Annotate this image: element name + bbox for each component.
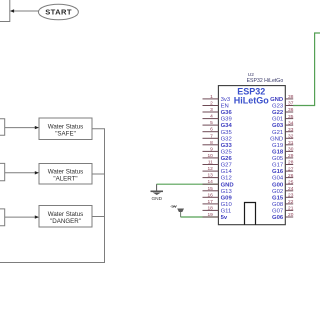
svg-text:G39: G39 — [221, 117, 232, 123]
svg-text:"SAFE": "SAFE" — [55, 131, 76, 138]
svg-text:G11: G11 — [221, 209, 232, 215]
svg-text:G00: G00 — [272, 182, 284, 188]
svg-text:36: 36 — [288, 107, 294, 113]
svg-text:ESP32 HiLetGo: ESP32 HiLetGo — [247, 78, 284, 84]
svg-text:23: 23 — [288, 193, 294, 199]
svg-text:35: 35 — [288, 114, 294, 120]
svg-text:10: 10 — [207, 153, 213, 159]
svg-text:12: 12 — [207, 166, 213, 172]
svg-text:26: 26 — [288, 173, 294, 179]
svg-text:G23: G23 — [272, 104, 284, 110]
svg-text:G32: G32 — [221, 136, 232, 142]
svg-text:G10: G10 — [221, 202, 233, 208]
svg-text:"ALERT": "ALERT" — [53, 176, 77, 183]
svg-text:14: 14 — [207, 179, 213, 185]
svg-text:30: 30 — [288, 147, 294, 153]
svg-text:G02: G02 — [272, 189, 283, 195]
svg-text:38: 38 — [288, 94, 294, 100]
svg-text:G25: G25 — [221, 150, 233, 156]
svg-text:20: 20 — [288, 212, 294, 218]
svg-text:G05: G05 — [272, 156, 284, 162]
svg-text:GND: GND — [270, 97, 283, 103]
svg-text:GND: GND — [151, 196, 162, 202]
svg-text:Water Status: Water Status — [48, 123, 84, 130]
svg-text:15: 15 — [207, 186, 213, 192]
svg-text:24: 24 — [288, 186, 294, 192]
svg-text:G09: G09 — [221, 195, 233, 201]
svg-text:G35: G35 — [221, 130, 233, 136]
svg-text:28: 28 — [288, 160, 294, 166]
svg-text:11: 11 — [208, 160, 213, 166]
svg-text:G03: G03 — [272, 123, 284, 129]
svg-text:G27: G27 — [221, 163, 232, 169]
svg-text:G18: G18 — [272, 150, 284, 156]
svg-text:9: 9 — [210, 146, 213, 152]
svg-text:G14: G14 — [221, 169, 233, 175]
svg-text:33: 33 — [288, 127, 294, 133]
svg-text:GND: GND — [270, 136, 283, 142]
svg-text:4: 4 — [210, 114, 213, 120]
svg-text:EN: EN — [221, 104, 229, 110]
svg-text:34: 34 — [288, 120, 294, 126]
svg-text:G17: G17 — [272, 163, 283, 169]
svg-text:HiLetGo: HiLetGo — [234, 95, 270, 105]
svg-text:G04: G04 — [272, 176, 284, 182]
svg-text:6: 6 — [210, 127, 213, 133]
svg-text:25: 25 — [288, 179, 294, 185]
svg-text:G06: G06 — [272, 215, 284, 221]
svg-text:3v3: 3v3 — [221, 97, 231, 103]
svg-text:32: 32 — [288, 134, 294, 140]
svg-text:G13: G13 — [221, 189, 233, 195]
svg-text:G26: G26 — [221, 156, 233, 162]
svg-text:Water Status: Water Status — [48, 168, 84, 175]
svg-text:29: 29 — [288, 153, 294, 159]
svg-text:13: 13 — [207, 173, 213, 179]
svg-text:GND: GND — [221, 182, 234, 188]
svg-text:8: 8 — [210, 140, 213, 146]
svg-text:G21: G21 — [272, 130, 283, 136]
svg-text:2: 2 — [210, 101, 213, 107]
svg-text:G15: G15 — [272, 195, 284, 201]
svg-text:18: 18 — [207, 205, 213, 211]
svg-text:G33: G33 — [221, 143, 233, 149]
svg-text:G08: G08 — [272, 202, 284, 208]
svg-text:17: 17 — [207, 199, 213, 205]
svg-text:G36: G36 — [221, 110, 233, 116]
svg-text:G34: G34 — [221, 123, 233, 129]
svg-text:37: 37 — [288, 101, 294, 107]
svg-text:G01: G01 — [272, 117, 283, 123]
svg-text:19: 19 — [207, 212, 213, 218]
svg-text:G19: G19 — [272, 143, 283, 149]
svg-text:5v: 5v — [221, 215, 228, 221]
svg-text:31: 31 — [288, 140, 294, 146]
svg-text:G22: G22 — [272, 110, 284, 116]
svg-text:21: 21 — [288, 206, 294, 212]
svg-text:22: 22 — [288, 199, 294, 205]
svg-text:7: 7 — [210, 133, 213, 139]
svg-text:G07: G07 — [272, 209, 283, 215]
svg-text:27: 27 — [288, 166, 294, 172]
svg-text:3: 3 — [210, 107, 213, 113]
svg-text:START: START — [45, 8, 72, 17]
svg-text:G12: G12 — [221, 176, 232, 182]
svg-text:G16: G16 — [272, 169, 284, 175]
svg-text:Water Status: Water Status — [48, 211, 84, 218]
svg-text:16: 16 — [207, 192, 213, 198]
svg-text:"DANGER": "DANGER" — [50, 218, 81, 225]
svg-text:1: 1 — [210, 94, 213, 100]
svg-text:5: 5 — [210, 120, 213, 126]
